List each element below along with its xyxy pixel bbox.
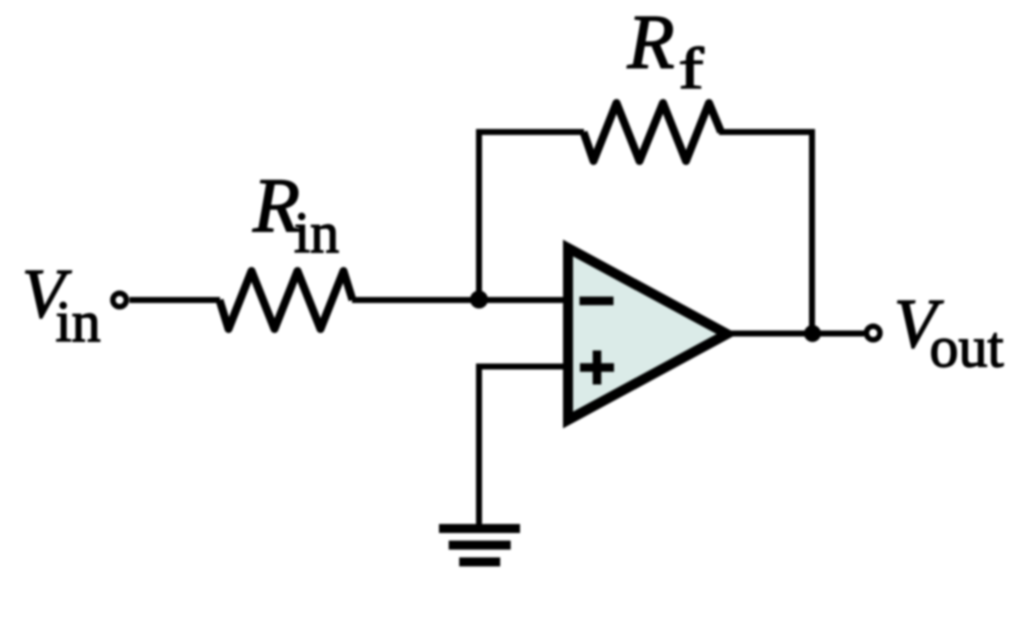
wire feedback top left segment [476, 129, 584, 135]
wire input from Vin terminal to node A [130, 297, 570, 303]
wire feedback left vertical from node A up [476, 129, 482, 303]
op-amp inverting input minus sign [580, 297, 614, 306]
node A junction dot [470, 291, 488, 309]
svg-text:f: f [679, 36, 705, 101]
svg-text:R: R [627, 0, 675, 84]
op-amp U1 [568, 248, 727, 420]
wire feedback right vertical down to output node [809, 129, 815, 334]
input terminal open circle [113, 293, 127, 307]
svg-text:out: out [930, 315, 1004, 380]
output node junction dot [804, 325, 821, 342]
svg-text:in: in [56, 289, 101, 354]
svg-text:in: in [294, 200, 339, 265]
label R_in [252, 162, 339, 265]
wire non-inverting input to op-amp [476, 364, 569, 370]
label V_out [894, 286, 1004, 380]
wire feedback top right segment [719, 129, 815, 135]
resistor R_in [220, 271, 353, 329]
label R_f [627, 0, 705, 101]
op-amp non-inverting input plus sign [580, 351, 614, 385]
svg-text:R: R [252, 162, 300, 248]
ground [439, 524, 520, 566]
wire down to ground [476, 364, 482, 527]
output terminal open circle [866, 326, 880, 340]
wire output from op-amp apex to Vout terminal [727, 331, 864, 337]
resistor R_f [584, 103, 722, 161]
label V_in [22, 256, 101, 354]
